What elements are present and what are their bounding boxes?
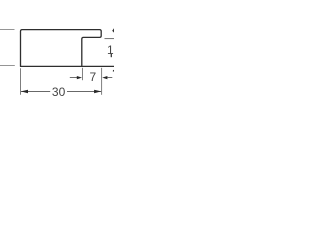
svg-text:7: 7 bbox=[89, 70, 96, 84]
svg-text:30: 30 bbox=[52, 85, 66, 99]
svg-text:1: 1 bbox=[107, 43, 114, 57]
